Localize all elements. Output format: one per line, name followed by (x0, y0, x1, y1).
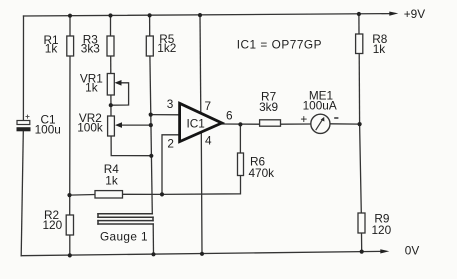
svg-text:4: 4 (205, 134, 212, 148)
svg-text:3: 3 (167, 97, 174, 111)
svg-text:1k: 1k (85, 81, 98, 95)
svg-text:1k: 1k (45, 42, 58, 56)
svg-text:1k: 1k (373, 42, 386, 56)
svg-text:+9V: +9V (404, 7, 425, 21)
svg-text:1k2: 1k2 (157, 41, 176, 55)
svg-text:IC1: IC1 (187, 116, 205, 130)
svg-text:100u: 100u (35, 122, 61, 136)
svg-text:0V: 0V (405, 244, 420, 258)
svg-text:100uA: 100uA (303, 99, 337, 113)
svg-text:+: + (300, 112, 307, 126)
svg-text:2: 2 (167, 137, 174, 151)
svg-text:7: 7 (205, 99, 212, 113)
svg-text:IC1 = OP77GP: IC1 = OP77GP (237, 37, 322, 51)
svg-text:120: 120 (42, 218, 62, 232)
svg-text:470k: 470k (249, 166, 275, 180)
svg-text:Gauge 1: Gauge 1 (100, 229, 148, 243)
svg-text:1k: 1k (105, 174, 118, 188)
svg-text:3k3: 3k3 (81, 41, 100, 55)
svg-text:120: 120 (372, 223, 392, 237)
svg-text:100k: 100k (77, 121, 103, 135)
svg-text:3k9: 3k9 (259, 100, 278, 114)
svg-text:6: 6 (226, 109, 233, 123)
